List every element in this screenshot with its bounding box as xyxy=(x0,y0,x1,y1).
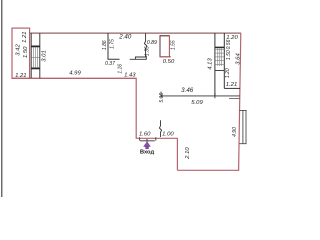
svg-text:5.16: 5.16 xyxy=(159,93,165,103)
shaft A hatch verticals xyxy=(33,47,37,67)
svg-text:1.16: 1.16 xyxy=(117,64,123,74)
shaft A mid line xyxy=(31,57,40,59)
svg-text:1.60: 1.60 xyxy=(139,131,151,137)
svg-text:2.40: 2.40 xyxy=(118,33,132,40)
wall: long bottom-left wall xyxy=(12,77,137,79)
svg-text:1.21: 1.21 xyxy=(226,82,237,88)
shaft A left vertical xyxy=(30,33,32,78)
short line y98.6 xyxy=(229,98,240,100)
svg-text:3.46: 3.46 xyxy=(181,87,194,94)
shaft A top cap xyxy=(31,45,40,47)
stair lower box top xyxy=(215,70,224,72)
partition wall x108 xyxy=(108,33,120,59)
svg-text:2.10: 2.10 xyxy=(185,147,191,160)
svg-text:3.42: 3.42 xyxy=(16,44,22,56)
wall: right outer wall xyxy=(239,33,241,170)
svg-text:4.90: 4.90 xyxy=(232,127,238,137)
wall: left annex red box xyxy=(12,28,30,78)
svg-text:1.21: 1.21 xyxy=(22,31,28,42)
shaft A bottom cap xyxy=(31,67,40,69)
svg-text:1.50: 1.50 xyxy=(23,46,29,58)
dimension line y59 xyxy=(130,56,147,60)
svg-text:1.43: 1.43 xyxy=(124,72,136,78)
svg-text:1.35: 1.35 xyxy=(145,46,151,56)
door sill entrance xyxy=(140,140,155,142)
stair top cap xyxy=(215,46,224,48)
svg-text:4.13: 4.13 xyxy=(208,58,214,70)
svg-text:4.99: 4.99 xyxy=(69,70,81,76)
svg-text:1.21: 1.21 xyxy=(15,73,26,79)
stair left vertical xyxy=(214,33,216,96)
svg-text:1.00: 1.00 xyxy=(162,131,174,137)
svg-text:1.86: 1.86 xyxy=(102,40,108,50)
svg-text:Вход: Вход xyxy=(140,149,155,155)
svg-text:1.75: 1.75 xyxy=(109,39,115,49)
wall: middle vertical wall xyxy=(135,78,137,138)
dimension line y95.9 xyxy=(161,92,240,99)
shaft B dark left and top edge xyxy=(160,36,169,57)
svg-text:3.64: 3.64 xyxy=(235,53,241,65)
stair treads xyxy=(215,48,224,66)
svg-text:3.01: 3.01 xyxy=(41,50,47,61)
svg-text:5.09: 5.09 xyxy=(191,100,203,106)
svg-text:1.50: 1.50 xyxy=(226,50,232,60)
svg-text:0.56: 0.56 xyxy=(226,39,232,49)
left page border line xyxy=(1,0,3,197)
wall: top outer wall xyxy=(30,32,241,34)
entrance arrow xyxy=(144,139,151,149)
svg-text:0.50: 0.50 xyxy=(163,59,175,65)
door header line xyxy=(135,57,145,60)
stair right vertical xyxy=(223,33,225,88)
shaft B red box xyxy=(160,36,169,57)
wall: bottom-right wall xyxy=(177,169,239,171)
svg-text:1.55: 1.55 xyxy=(171,40,177,50)
svg-text:1.20: 1.20 xyxy=(225,68,231,78)
door tick right xyxy=(155,137,157,140)
wall: entrance bottom wall xyxy=(136,137,178,139)
svg-text:0.89: 0.89 xyxy=(147,40,157,46)
svg-text:0.37: 0.37 xyxy=(105,61,115,67)
wall: entrance right vertical xyxy=(176,138,178,170)
door tick left xyxy=(139,137,141,140)
window right wall xyxy=(239,110,246,143)
squiggle dimension vertical x145.6 xyxy=(144,33,146,57)
wall stub to right wall xyxy=(224,87,240,89)
shaft A right vertical xyxy=(39,33,41,78)
squiggle dimension x160.5 xyxy=(159,120,161,137)
shaft B bottom red stub xyxy=(160,56,171,58)
